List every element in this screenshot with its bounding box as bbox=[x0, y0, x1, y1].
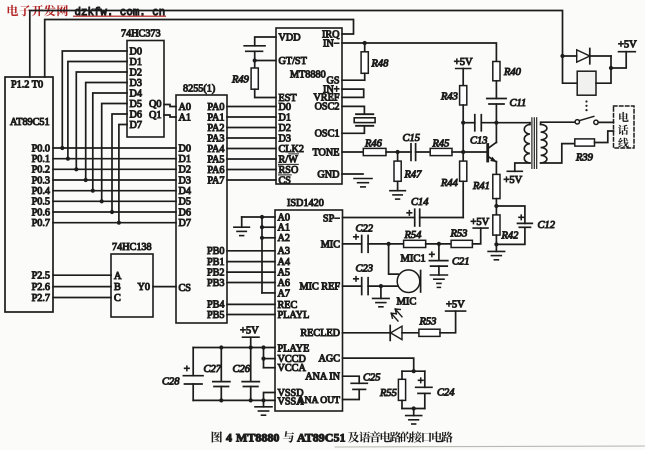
svg-text:+5V: +5V bbox=[504, 175, 523, 186]
wire C22 to R54 bbox=[368, 243, 404, 245]
svg-text:OSC2: OSC2 bbox=[315, 102, 340, 113]
svg-text:C21: C21 bbox=[452, 257, 470, 268]
wire latch branch D2 bbox=[76, 72, 127, 169]
svg-text:R54: R54 bbox=[404, 230, 423, 241]
capacitor C23 bbox=[361, 278, 363, 295]
resistor R48 bbox=[364, 43, 366, 52]
wire R53 to +5V bbox=[440, 311, 456, 333]
capacitor C11 bbox=[487, 98, 506, 100]
decoder U4 74HC138 bbox=[111, 242, 153, 317]
svg-text:+5V: +5V bbox=[618, 40, 637, 51]
svg-text:P0.1: P0.1 bbox=[32, 154, 50, 165]
capacitor C14 bbox=[414, 209, 416, 226]
wire secondary bottom to R39 bbox=[541, 144, 575, 163]
svg-text:R40: R40 bbox=[503, 67, 522, 78]
junction TONE/R47 bbox=[396, 150, 400, 154]
ground under R42 bbox=[495, 244, 497, 251]
svg-text:OSC1: OSC1 bbox=[315, 129, 340, 140]
wire Q0 to 8255 A0 bbox=[164, 105, 176, 107]
+5V at VCC bbox=[243, 336, 260, 338]
microphone MIC1 bbox=[389, 244, 426, 308]
svg-text:Q0: Q0 bbox=[149, 99, 161, 110]
svg-text:P2.5: P2.5 bbox=[32, 271, 50, 282]
wire A2 stub bbox=[262, 237, 275, 239]
svg-text:MT8880: MT8880 bbox=[236, 431, 279, 445]
wire VCCD stub bbox=[264, 358, 276, 360]
svg-text:P0.7: P0.7 bbox=[32, 218, 50, 229]
svg-text:D7: D7 bbox=[130, 120, 142, 131]
ground at MIC REF bbox=[380, 286, 382, 298]
wire P0.2 bus to 8255 D2 bbox=[53, 168, 176, 170]
wire VCCA stub bbox=[264, 367, 276, 369]
DTMF U5 MT8880 bbox=[276, 28, 342, 186]
junction P0.4 bbox=[91, 189, 95, 193]
svg-text:D3: D3 bbox=[279, 133, 291, 144]
svg-text:PA1: PA1 bbox=[207, 112, 224, 123]
wire C15 to R45 bbox=[416, 151, 431, 153]
capacitor C22 bbox=[361, 236, 363, 253]
svg-text:A6: A6 bbox=[278, 278, 290, 289]
svg-text:R48: R48 bbox=[371, 59, 390, 70]
svg-text:VCCA: VCCA bbox=[278, 363, 307, 374]
wire R43 to C13 node bbox=[462, 105, 464, 123]
svg-text:D6: D6 bbox=[179, 207, 191, 218]
capacitor C13 bbox=[463, 122, 475, 124]
capacitor C24 bbox=[424, 371, 426, 387]
capacitor C26 bbox=[250, 348, 252, 382]
svg-text:PA6: PA6 bbox=[207, 165, 224, 176]
wire T0 to MT8880 IRQ bbox=[45, 20, 354, 78]
svg-text:A: A bbox=[114, 271, 122, 282]
wire VCC bracket bbox=[263, 348, 265, 368]
resistor R42 bbox=[495, 206, 497, 215]
svg-text:ISD1420: ISD1420 bbox=[287, 198, 324, 209]
wire P0.5 bus to 8255 D5 bbox=[53, 200, 176, 202]
wire PB4 to ISD1420 bbox=[227, 303, 275, 305]
wire collector up bbox=[495, 123, 497, 143]
relay actuation dotted link bbox=[585, 100, 587, 111]
wire PA7 to MT8880 bbox=[227, 179, 276, 181]
wire GND pin bbox=[342, 173, 363, 175]
scan artifact line bbox=[335, 446, 645, 447]
junction AGC bbox=[412, 369, 416, 373]
svg-text:8255(1): 8255(1) bbox=[183, 84, 215, 95]
latch U2 74HC373 bbox=[121, 29, 164, 138]
wire PA1 to MT8880 bbox=[227, 116, 276, 118]
svg-text:R43: R43 bbox=[440, 92, 458, 103]
wire PB1 to ISD1420 bbox=[227, 261, 275, 263]
junction P0.1 bbox=[66, 157, 70, 161]
wire PA0 to MT8880 bbox=[227, 106, 276, 108]
wire MIC line bbox=[343, 243, 362, 245]
svg-text:D1: D1 bbox=[179, 154, 191, 165]
svg-text:ANA IN: ANA IN bbox=[305, 372, 340, 383]
+5V top right bbox=[611, 52, 626, 68]
wire primary bottom to +5V bbox=[515, 163, 530, 171]
wire A7 stub bbox=[262, 292, 275, 294]
svg-text:C23: C23 bbox=[356, 264, 374, 275]
svg-text:PLAYL: PLAYL bbox=[278, 310, 310, 321]
svg-text:R41: R41 bbox=[472, 181, 490, 192]
resistor R53 (LED) bbox=[419, 329, 440, 336]
svg-text:PA2: PA2 bbox=[207, 123, 224, 134]
resistor R54 bbox=[404, 240, 426, 247]
capacitor C27 bbox=[220, 348, 222, 382]
svg-text:SP−: SP− bbox=[323, 213, 340, 224]
wire emitter to R41 bbox=[495, 162, 497, 175]
wire R54 to R53 bbox=[426, 243, 451, 245]
resistor R43 bbox=[462, 69, 464, 86]
junction P0.3 bbox=[84, 178, 88, 182]
svg-text:PA0: PA0 bbox=[207, 102, 224, 113]
svg-text:Y0: Y0 bbox=[138, 282, 150, 293]
junction P0.7 bbox=[117, 221, 121, 225]
svg-text:+: + bbox=[518, 212, 524, 224]
wire A0 to ground bbox=[242, 216, 275, 218]
ground under R47 bbox=[390, 190, 406, 192]
junction C13 node bbox=[461, 121, 465, 125]
resistor R44 bbox=[462, 152, 464, 161]
wire PA3 to MT8880 bbox=[227, 137, 276, 139]
junction A0 bbox=[260, 215, 264, 219]
wire C23 to mic bbox=[368, 285, 398, 287]
svg-text:D0: D0 bbox=[179, 143, 191, 154]
transistor Q1 bbox=[463, 142, 497, 162]
svg-text:D3: D3 bbox=[179, 175, 191, 186]
svg-text:+: + bbox=[184, 363, 190, 375]
junction rail dots bbox=[219, 345, 223, 349]
wire R39 to phone line bbox=[595, 131, 614, 143]
wire VSS rail bbox=[193, 399, 275, 401]
svg-text:CS: CS bbox=[179, 283, 192, 294]
wire latch branch D7 bbox=[119, 125, 127, 223]
transformer T1 secondary bbox=[541, 124, 547, 163]
svg-text:D4: D4 bbox=[179, 186, 191, 197]
svg-text:PA5: PA5 bbox=[207, 154, 224, 165]
svg-text:AT89C51: AT89C51 bbox=[297, 431, 345, 445]
junction diode left bbox=[560, 54, 564, 58]
svg-text:C13: C13 bbox=[470, 136, 488, 147]
resistor R41 bbox=[493, 174, 500, 198]
svg-text:D1: D1 bbox=[279, 112, 291, 123]
wire latch branch D0 bbox=[62, 51, 127, 148]
wire IN+ tied to VREF bbox=[342, 89, 364, 97]
junction C21 bbox=[437, 242, 441, 246]
junction base node bbox=[461, 150, 465, 154]
svg-text:R42: R42 bbox=[501, 231, 520, 242]
svg-text:+5V: +5V bbox=[454, 57, 473, 68]
wire P1.2 to ring-detect top rail bbox=[30, 11, 563, 78]
wire AGC rail top bbox=[402, 370, 425, 372]
wire PA2 to MT8880 bbox=[227, 127, 276, 129]
transformer T1 primary bbox=[524, 125, 530, 164]
wire R41 to R42 node bbox=[495, 199, 497, 206]
svg-text:R53: R53 bbox=[450, 229, 468, 240]
wire PB2 to ISD1420 bbox=[227, 271, 275, 273]
junction P0.5 bbox=[100, 199, 104, 203]
svg-text:R46: R46 bbox=[364, 139, 383, 150]
svg-text:+5V: +5V bbox=[446, 300, 465, 311]
ground under GND bbox=[354, 178, 372, 180]
svg-text:R39: R39 bbox=[575, 153, 594, 164]
junction A2 bbox=[260, 236, 264, 240]
capacitor C12 bbox=[496, 206, 525, 223]
wire P2.5 to A bbox=[53, 274, 111, 276]
wire node to base node bbox=[462, 123, 464, 152]
ground under C21 bbox=[438, 266, 440, 275]
wire bottom rail bbox=[402, 408, 425, 410]
capacitor C21 bbox=[438, 244, 440, 261]
wire P0.3 bus to 8255 D3 bbox=[53, 179, 176, 181]
svg-text:P1.2 T0: P1.2 T0 bbox=[11, 80, 43, 91]
svg-text:IN−: IN− bbox=[323, 38, 340, 49]
svg-text:R53: R53 bbox=[419, 317, 437, 328]
svg-text:B: B bbox=[114, 282, 121, 293]
wire C13 to collector node bbox=[481, 122, 530, 124]
svg-text:PB1: PB1 bbox=[207, 257, 225, 268]
resistor R53 bbox=[451, 240, 472, 247]
svg-text:74HC138: 74HC138 bbox=[112, 242, 152, 253]
crystal X1 bbox=[342, 106, 364, 114]
wire latch branch D6 bbox=[112, 114, 127, 212]
wire VDD bbox=[255, 37, 276, 46]
svg-text:D0: D0 bbox=[279, 102, 291, 113]
svg-text:R55: R55 bbox=[379, 388, 397, 399]
svg-text:MIC: MIC bbox=[397, 297, 417, 308]
svg-text:R47: R47 bbox=[404, 170, 423, 181]
resistor R40 bbox=[493, 62, 500, 81]
wire R53 to +5V bbox=[472, 228, 480, 244]
wire latch branch D1 bbox=[68, 62, 127, 159]
resistor R47 bbox=[397, 152, 399, 161]
svg-text:+5V: +5V bbox=[471, 217, 490, 228]
+5V at RECLED bbox=[446, 310, 466, 312]
junction mic branch bbox=[387, 242, 391, 246]
svg-text:VDD: VDD bbox=[279, 33, 301, 44]
wire TONE bbox=[342, 151, 363, 153]
svg-text:C28: C28 bbox=[162, 377, 180, 388]
svg-text:4: 4 bbox=[226, 431, 232, 445]
ground under VSS rail bbox=[263, 400, 265, 406]
svg-text:C11: C11 bbox=[510, 98, 527, 109]
wire RECLED line bbox=[343, 332, 391, 334]
wire VCC rail bbox=[193, 347, 275, 349]
resistor R45 bbox=[430, 148, 452, 155]
svg-text:PA7: PA7 bbox=[207, 175, 224, 186]
svg-text:C22: C22 bbox=[356, 224, 374, 235]
junction P0.0 bbox=[60, 146, 64, 150]
junction GT/ST bbox=[253, 58, 257, 62]
svg-text:A5: A5 bbox=[278, 268, 290, 279]
wire P2.6 to B bbox=[53, 286, 111, 288]
svg-text:TONE: TONE bbox=[313, 147, 340, 158]
wire MIC REF line bbox=[343, 285, 362, 287]
wire Q1 to 8255 A1 bbox=[164, 115, 176, 117]
svg-text:D4: D4 bbox=[130, 88, 142, 99]
ground under R55/C24 bbox=[413, 409, 415, 416]
svg-text:R44: R44 bbox=[440, 178, 459, 189]
junction P0.6 bbox=[110, 210, 114, 214]
junction VCCD bbox=[261, 357, 265, 361]
hook switch S1 bbox=[575, 116, 598, 124]
resistor R49 bbox=[254, 61, 256, 69]
watermark text 电子开发网 dzkfw.com.cn bbox=[8, 5, 166, 19]
caption 图4 MT8880 与 AT89C51 及语音电路的接口电路 bbox=[212, 431, 453, 445]
wire R49 to EST bbox=[255, 89, 276, 97]
wire PA5 to MT8880 bbox=[227, 158, 276, 160]
wire R40 to C11 bbox=[495, 81, 497, 99]
svg-text:D5: D5 bbox=[130, 99, 142, 110]
wire cap to GT/ST bbox=[254, 51, 256, 60]
junction P0.2 bbox=[74, 167, 78, 171]
svg-text:C15: C15 bbox=[403, 133, 421, 144]
svg-text:C25: C25 bbox=[363, 373, 381, 384]
wire P0.7 bus to 8255 D7 bbox=[53, 222, 176, 224]
wire VSSD stub bbox=[264, 393, 276, 401]
svg-text:A7: A7 bbox=[278, 288, 290, 299]
svg-text:GND: GND bbox=[317, 169, 339, 180]
capacitor C28 bbox=[192, 348, 194, 376]
diode D1 ring detect bbox=[563, 49, 612, 64]
wire PB3 to ISD1420 bbox=[227, 282, 275, 284]
svg-text:+: + bbox=[353, 274, 359, 286]
svg-text:RSO: RSO bbox=[279, 165, 299, 176]
svg-text:P0.3: P0.3 bbox=[32, 175, 50, 186]
svg-text:PB2: PB2 bbox=[207, 267, 225, 278]
junction R42 top bbox=[494, 204, 498, 208]
junction IN- bbox=[363, 41, 367, 45]
resistor R39 bbox=[575, 139, 595, 146]
wire ANA OUT bbox=[343, 389, 360, 399]
junction bottom rail bbox=[412, 406, 416, 410]
svg-text:D2: D2 bbox=[130, 67, 142, 78]
+5V above R43 bbox=[456, 68, 471, 70]
svg-text:P2.7: P2.7 bbox=[32, 293, 50, 304]
svg-text:AGC: AGC bbox=[318, 354, 340, 365]
junction A1 bbox=[260, 225, 264, 229]
wire latch branch D5 bbox=[102, 104, 127, 202]
svg-text:A1: A1 bbox=[278, 223, 290, 234]
wire P0.4 bus to 8255 D4 bbox=[53, 190, 176, 192]
wire ANA IN bbox=[343, 376, 360, 383]
svg-text:MIC1: MIC1 bbox=[401, 254, 426, 265]
svg-text:D7: D7 bbox=[179, 218, 191, 229]
wire Y0 to CS bbox=[153, 286, 176, 288]
svg-text:MIC: MIC bbox=[321, 239, 340, 250]
wire GT/ST bbox=[255, 60, 276, 62]
svg-text:Q1: Q1 bbox=[149, 110, 161, 121]
svg-text:A4: A4 bbox=[278, 257, 290, 268]
capacitor at VDD bbox=[244, 45, 265, 47]
svg-text:+: + bbox=[429, 249, 435, 261]
svg-text:R45: R45 bbox=[432, 139, 450, 150]
svg-text:PB3: PB3 bbox=[207, 278, 225, 289]
svg-text:D3: D3 bbox=[130, 78, 142, 89]
wire AGC bbox=[343, 358, 414, 371]
wire PA4 to MT8880 bbox=[227, 148, 276, 150]
svg-text:ANA OUT: ANA OUT bbox=[298, 395, 341, 406]
resistor R55 bbox=[401, 371, 403, 379]
wire A0-A7 tie bbox=[261, 217, 263, 293]
junction MIC REF bbox=[379, 284, 383, 288]
svg-text:+5V: +5V bbox=[240, 326, 259, 337]
wire P2.7 to C bbox=[53, 297, 111, 299]
svg-text:MIC REF: MIC REF bbox=[300, 282, 341, 293]
PIO U3 8255(1) bbox=[176, 84, 227, 324]
voice chip U6 ISD1420 bbox=[275, 198, 343, 411]
svg-text:D5: D5 bbox=[179, 197, 191, 208]
wire LED to R53 bbox=[402, 332, 419, 334]
MCU U1 AT89C51 bbox=[5, 77, 53, 312]
LED D2 bbox=[390, 309, 402, 340]
svg-text:D0: D0 bbox=[130, 46, 142, 57]
svg-text:C14: C14 bbox=[411, 197, 429, 208]
wire diode to +5V node bbox=[610, 56, 612, 68]
svg-text:R/W: R/W bbox=[279, 154, 299, 165]
svg-text:A1: A1 bbox=[179, 112, 191, 123]
svg-text:C12: C12 bbox=[538, 220, 556, 231]
svg-text:P0.6: P0.6 bbox=[32, 207, 50, 218]
svg-text:+: + bbox=[418, 375, 424, 387]
svg-text:MT8880: MT8880 bbox=[290, 70, 326, 81]
svg-text:D1: D1 bbox=[130, 57, 142, 68]
svg-text:+: + bbox=[406, 208, 412, 220]
wire P0.6 bus to 8255 D6 bbox=[53, 211, 176, 213]
+5V under transformer bbox=[507, 170, 522, 172]
svg-text:P2.6: P2.6 bbox=[32, 282, 50, 293]
phone line terminal 电话线 bbox=[614, 106, 635, 148]
svg-text:D2: D2 bbox=[279, 123, 291, 134]
svg-text:RECLED: RECLED bbox=[300, 328, 340, 339]
wire PB0 to ISD1420 bbox=[227, 250, 275, 252]
wire C14 to R44 bbox=[420, 217, 464, 219]
svg-text:PLAYE: PLAYE bbox=[278, 343, 310, 354]
svg-text:P0.2: P0.2 bbox=[32, 165, 50, 176]
wire PB5 to ISD1420 bbox=[227, 314, 275, 316]
junction R42 bottom bbox=[494, 242, 498, 246]
svg-text:CLK2: CLK2 bbox=[279, 144, 304, 155]
svg-text:dzkfw. com. cn: dzkfw. com. cn bbox=[75, 7, 166, 19]
wire latch branch D4 bbox=[93, 93, 127, 191]
transformer core bbox=[531, 118, 533, 169]
svg-text:C27: C27 bbox=[204, 364, 222, 375]
svg-text:PB5: PB5 bbox=[207, 310, 225, 321]
svg-text:R49: R49 bbox=[231, 75, 250, 86]
junction +5V node bbox=[609, 66, 613, 70]
svg-text:C26: C26 bbox=[233, 364, 251, 375]
svg-text:PA3: PA3 bbox=[207, 133, 224, 144]
svg-text:CS: CS bbox=[279, 175, 292, 186]
wire A1 stub bbox=[262, 226, 275, 228]
wire R45 to base node bbox=[452, 151, 463, 153]
svg-text:D2: D2 bbox=[179, 165, 191, 176]
wire P0.1 bus to 8255 D1 bbox=[53, 158, 176, 160]
svg-text:A2: A2 bbox=[278, 233, 290, 244]
+5V at mic bias bbox=[473, 227, 488, 229]
svg-text:PB0: PB0 bbox=[207, 246, 225, 257]
wire primary top bbox=[529, 123, 531, 125]
wire secondary top to hook switch bbox=[541, 122, 576, 124]
svg-text:GT/ST: GT/ST bbox=[279, 56, 308, 67]
svg-text:D6: D6 bbox=[130, 109, 142, 120]
wire P0.0 bus to 8255 D0 bbox=[53, 147, 176, 149]
wire PA6 to MT8880 bbox=[227, 169, 276, 171]
svg-text:P0.0: P0.0 bbox=[32, 143, 50, 154]
wire IN- to R40 bbox=[342, 43, 496, 62]
svg-text:AT89C51: AT89C51 bbox=[10, 117, 50, 128]
capacitor C25 bbox=[351, 382, 367, 384]
wire GS bbox=[342, 79, 365, 81]
